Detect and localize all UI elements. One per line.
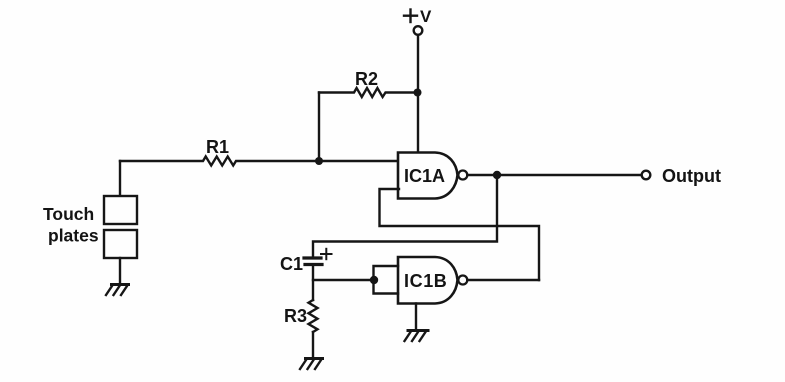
IC1A output bubble — [458, 171, 467, 180]
touch plate upper — [104, 196, 137, 224]
node R2 / +V junction — [414, 89, 422, 97]
NAND gate IC1A — [398, 153, 458, 199]
node output junction — [493, 171, 501, 179]
ground (touch plates) — [106, 285, 129, 296]
+V terminal — [414, 26, 423, 35]
svg-text:IC1A: IC1A — [404, 166, 445, 186]
wire IC1B ground pin — [415, 304, 417, 331]
resistor R1 — [120, 157, 398, 166]
IC1B input tie bar — [374, 266, 399, 294]
wire IC1A output to output terminal — [467, 174, 641, 176]
wire IC1B output to feedback riser — [467, 279, 539, 281]
label +V — [404, 10, 417, 23]
node R1 / R2 junction — [315, 157, 323, 165]
ground (R3) — [300, 359, 323, 370]
svg-text:R3: R3 — [284, 306, 307, 326]
touch plate lower — [104, 230, 137, 258]
wire +V terminal down to R2 junction — [417, 35, 419, 92]
svg-text:plates: plates — [48, 226, 99, 246]
wire IC1A lower input feedback from IC1B output — [380, 189, 540, 280]
IC1B output bubble — [458, 276, 467, 285]
svg-text:R1: R1 — [206, 137, 229, 157]
wire output junction down and left to C1 — [313, 175, 497, 257]
wire lower plate to ground — [119, 258, 121, 284]
svg-text:IC1B: IC1B — [404, 271, 447, 291]
resistor R2 — [319, 88, 418, 97]
ground (IC1B) — [405, 331, 429, 342]
wire C1/R3 node to IC1B inputs — [313, 279, 374, 281]
wire R2 left leg down to R1 node — [318, 93, 320, 162]
NAND gate IC1B — [398, 257, 458, 304]
C1 polarity plus sign — [321, 249, 332, 259]
svg-text:V: V — [420, 7, 432, 26]
capacitor C1 — [304, 258, 322, 265]
wire R2 junction down to IC1A top — [417, 92, 419, 153]
svg-text:C1: C1 — [280, 254, 303, 274]
wire C1 bottom plate down to R3 — [312, 265, 314, 301]
svg-text:Output: Output — [662, 166, 721, 186]
node IC1B input junction — [370, 276, 378, 284]
svg-text:R2: R2 — [355, 69, 378, 89]
wire down to touch plates — [119, 161, 121, 196]
resistor R3 — [309, 300, 318, 332]
output terminal — [642, 171, 651, 180]
svg-text:Touch: Touch — [43, 204, 94, 224]
wire R3 to ground — [312, 332, 314, 358]
